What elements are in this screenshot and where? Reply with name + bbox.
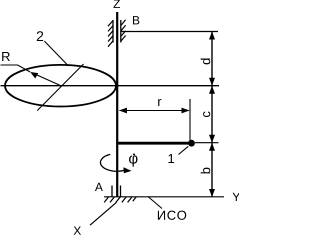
- rod to point 1: [117, 142, 191, 145]
- diameter diagonal of disk: [37, 64, 83, 111]
- label Y: [233, 193, 240, 201]
- bearing B right wall: [120, 20, 122, 43]
- arrowhead up at rod level: [209, 143, 215, 151]
- label A: [95, 183, 103, 191]
- label B: [133, 16, 139, 24]
- label c (rotated): [203, 111, 210, 117]
- bearing B right wall hatches: [121, 20, 126, 42]
- bearing A right wall: [120, 186, 122, 197]
- label r: [158, 99, 161, 106]
- top extension line from bearing B: [121, 31, 218, 33]
- r right arrowhead: [182, 108, 190, 114]
- ground hatches: [104, 197, 136, 203]
- arrowhead up at top line: [209, 32, 215, 40]
- label 2 with leader: [37, 31, 69, 66]
- rotation arc phi: [100, 154, 124, 171]
- label ISO with leader: [149, 197, 187, 220]
- label phi-dot: [129, 153, 137, 166]
- arrowhead up at middle line: [209, 86, 215, 94]
- bearing A left wall: [111, 186, 113, 197]
- label Z: [113, 0, 120, 8]
- shaft / Z axis: [116, 12, 118, 197]
- label b (rotated): [201, 168, 211, 174]
- arrowhead down at middle line: [209, 78, 215, 86]
- bearing B left wall: [112, 20, 114, 43]
- dimension line vertical (d,c,b): [211, 32, 213, 198]
- r dimension line: [120, 110, 190, 112]
- bearing B left wall hatches: [108, 21, 113, 47]
- ground / Y axis line: [104, 196, 224, 198]
- r end tick extension to point 1: [189, 99, 191, 141]
- disk 2 (ellipse): [5, 65, 116, 107]
- arrowhead down at rod level: [209, 135, 215, 143]
- r left arrowhead: [119, 108, 127, 114]
- point 1 dot: [188, 140, 195, 147]
- extension from point 1 to dimension line: [195, 142, 219, 144]
- label X: [74, 227, 81, 235]
- arrowhead down at ground: [209, 189, 215, 197]
- label d (rotated): [201, 59, 211, 65]
- center line through disk: [1, 85, 220, 87]
- X axis line: [90, 202, 117, 225]
- label R with leader: [1, 52, 31, 72]
- radius arrow R: [30, 72, 61, 86]
- rotation arrowhead: [123, 167, 131, 173]
- label 1 with leader: [168, 146, 188, 163]
